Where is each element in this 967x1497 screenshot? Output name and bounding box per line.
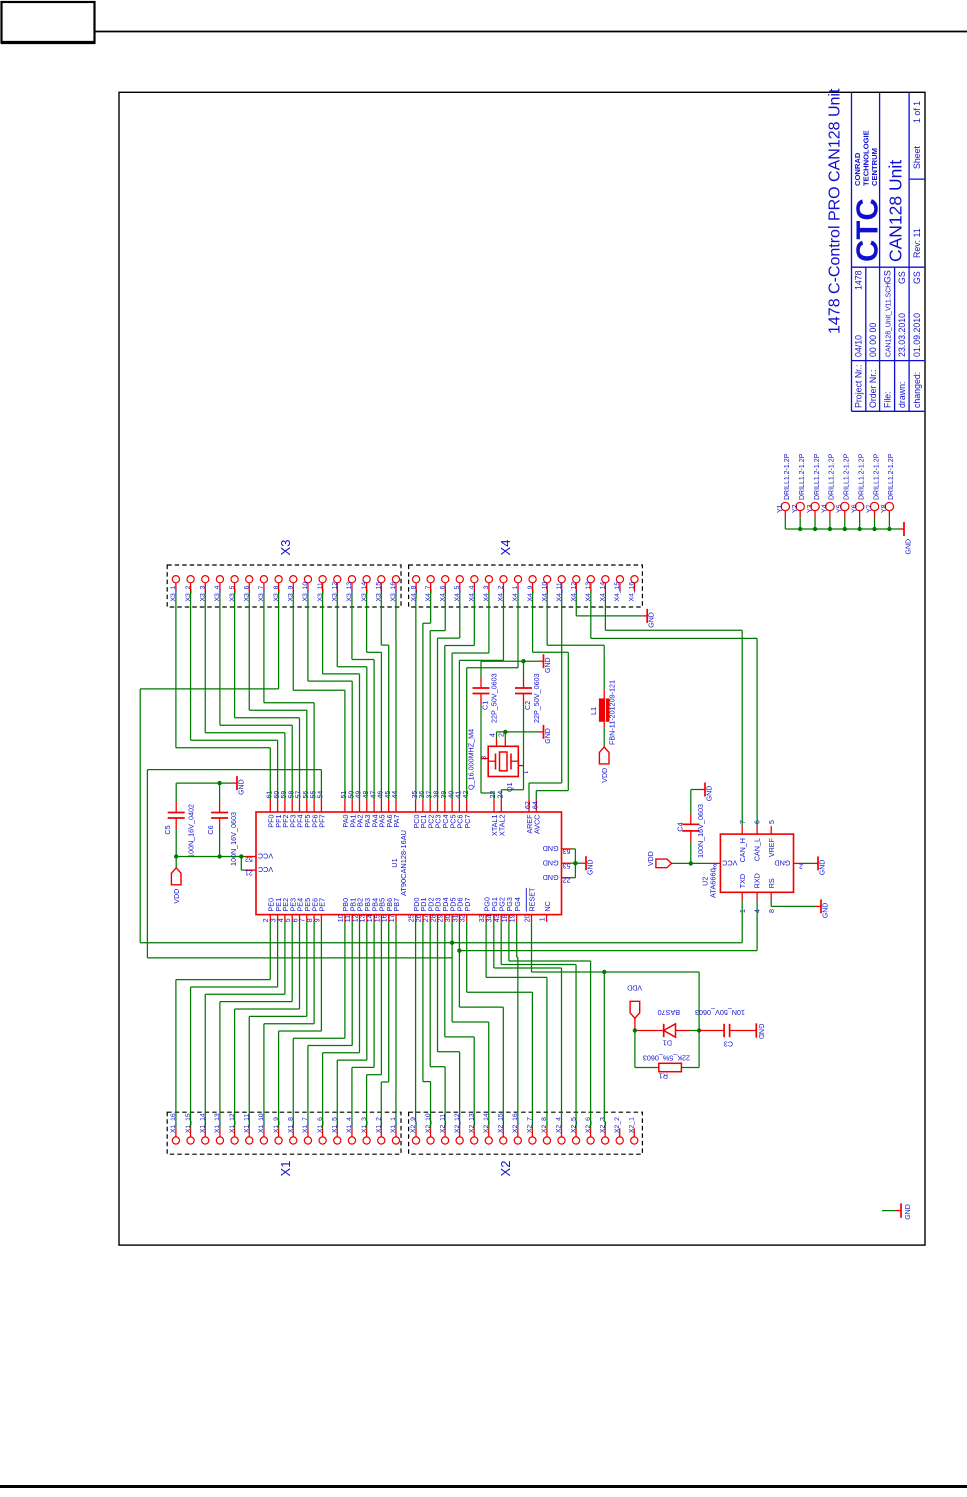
svg-text:DRILL1.2-1.2P: DRILL1.2-1.2P [844, 453, 851, 500]
capacitor C5 [163, 783, 196, 858]
wire U2 RS to ground [771, 900, 816, 906]
svg-text:63: 63 [563, 847, 571, 854]
ground X4_12 [642, 609, 655, 628]
svg-text:GND: GND [706, 786, 713, 802]
wire VDD to U2 VCC [672, 861, 711, 865]
title block texts [854, 270, 923, 408]
wire PD0 to X2_9 [415, 922, 417, 1122]
crystal Q1 [467, 729, 529, 792]
svg-text:changed:: changed: [912, 372, 922, 408]
svg-text:1478 C-Control PRO CAN128 Unit: 1478 C-Control PRO CAN128 Unit [827, 88, 844, 334]
svg-text:34: 34 [487, 914, 494, 922]
svg-text:16: 16 [382, 914, 389, 922]
svg-text:10N_50V_0603: 10N_50V_0603 [695, 1008, 745, 1017]
svg-text:C5: C5 [163, 825, 172, 834]
svg-text:DRILL1.2-1.2P: DRILL1.2-1.2P [814, 453, 821, 500]
svg-text:4: 4 [490, 733, 497, 737]
svg-text:R1: R1 [659, 1072, 668, 1081]
svg-text:GND: GND [649, 612, 656, 628]
svg-text:100N_16V_0402: 100N_16V_0402 [187, 804, 196, 858]
svg-text:RXD: RXD [753, 873, 762, 888]
sheet cell [912, 101, 922, 169]
svg-text:GND: GND [545, 657, 552, 673]
svg-text:8: 8 [307, 918, 314, 922]
svg-text:Project Nr.:: Project Nr.: [854, 364, 864, 408]
svg-text:GND: GND [238, 779, 245, 795]
svg-text:30: 30 [445, 914, 452, 922]
svg-text:ATA6660: ATA6660 [709, 868, 718, 898]
svg-text:11: 11 [345, 915, 352, 922]
svg-text:22P_50V_0603: 22P_50V_0603 [490, 673, 499, 723]
svg-text:53: 53 [563, 862, 571, 869]
wire X4 to PC staircase [423, 598, 518, 800]
wire XTAL2 net [501, 766, 523, 800]
svg-text:6: 6 [292, 918, 299, 922]
svg-text:VDD: VDD [648, 851, 655, 866]
wire X3_8 TXD net [140, 598, 742, 945]
wire X3 to PF staircase [176, 598, 314, 800]
ground U2 RS [816, 899, 829, 918]
svg-text:1: 1 [540, 917, 547, 921]
svg-text:U1: U1 [390, 858, 399, 867]
ground C4 [700, 783, 713, 802]
svg-text:PD7: PD7 [463, 898, 472, 912]
wire PB to X1 staircase [293, 922, 396, 1122]
capacitor C3 [695, 1008, 764, 1049]
svg-text:3: 3 [481, 756, 488, 760]
svg-text:Y1: Y1 [777, 504, 784, 513]
resistor R1 22K [635, 1054, 699, 1081]
svg-text:CENTRUM: CENTRUM [870, 148, 879, 186]
svg-text:26: 26 [416, 914, 423, 922]
wire X4_12 to gnd [576, 598, 642, 616]
svg-text:Q_16.000MHZ_M4: Q_16.000MHZ_M4 [467, 729, 476, 790]
svg-text:29: 29 [438, 914, 445, 922]
svg-text:GND: GND [543, 844, 559, 853]
svg-text:PE7: PE7 [318, 898, 327, 912]
wire C5 C6 top rail [176, 781, 232, 785]
svg-text:CTC: CTC [850, 198, 885, 262]
capacitor C2 [515, 661, 541, 765]
svg-text:GND: GND [906, 539, 913, 555]
wire PD to X2 staircase [423, 922, 533, 1122]
svg-text:GND: GND [587, 859, 594, 875]
svg-text:X3: X3 [278, 540, 293, 556]
power VDD C5 [171, 868, 181, 904]
svg-text:7: 7 [740, 820, 747, 824]
svg-text:NC: NC [543, 901, 552, 911]
svg-text:X4: X4 [498, 540, 513, 556]
wire X3_9 to PA0 [293, 598, 345, 800]
svg-text:GND: GND [757, 1024, 764, 1040]
svg-text:31: 31 [452, 914, 459, 922]
svg-text:GND: GND [543, 858, 559, 867]
svg-text:22K_5%_0603: 22K_5%_0603 [643, 1054, 690, 1063]
svg-text:drawn:: drawn: [897, 382, 907, 408]
IC U1 AT90CAN128-16AU [245, 791, 572, 923]
svg-text:VDD: VDD [174, 889, 181, 904]
wire X4_9 to AVCC [533, 598, 569, 800]
title block table [852, 93, 926, 412]
svg-text:1: 1 [740, 909, 747, 913]
svg-text:C4: C4 [676, 822, 685, 831]
IC U2 ATA6660 [701, 820, 804, 913]
svg-text:C3: C3 [724, 1040, 733, 1049]
svg-text:C2: C2 [523, 701, 532, 710]
svg-text:L1: L1 [589, 707, 598, 715]
svg-text:File:: File: [882, 391, 892, 408]
svg-text:27: 27 [423, 914, 430, 922]
capacitor C1 [473, 661, 499, 758]
svg-text:Q1: Q1 [505, 782, 514, 792]
connector X1 [167, 1112, 401, 1176]
svg-text:Sheet: Sheet [912, 145, 922, 169]
svg-text:VCC: VCC [722, 858, 737, 867]
svg-text:5: 5 [769, 820, 776, 824]
wire C4 top to gnd [691, 789, 700, 791]
capacitor C4 [676, 790, 706, 864]
svg-text:GND: GND [545, 728, 552, 744]
svg-text:GS: GS [912, 271, 922, 284]
connector X2 [409, 1112, 643, 1176]
svg-text:TXD: TXD [738, 874, 747, 888]
svg-text:Y4: Y4 [822, 504, 829, 513]
wire X3 to PA staircase [308, 598, 389, 800]
svg-text:PF7: PF7 [318, 815, 327, 828]
svg-text:10: 10 [338, 914, 345, 922]
wire Y bus [785, 528, 899, 530]
svg-text:DRILL1.2-1.2P: DRILL1.2-1.2P [799, 453, 806, 500]
svg-text:6: 6 [755, 820, 762, 824]
svg-text:VCC: VCC [258, 865, 273, 874]
svg-text:RESET: RESET [528, 887, 537, 912]
svg-text:3: 3 [271, 918, 278, 922]
svg-text:3: 3 [713, 862, 717, 869]
wire PG staircase to X2 [486, 922, 590, 1122]
svg-text:100N_16V_0603: 100N_16V_0603 [229, 812, 238, 866]
svg-text:RS: RS [767, 878, 776, 888]
svg-text:Y7: Y7 [866, 504, 873, 513]
svg-text:VDD: VDD [627, 984, 642, 991]
svg-text:X4_16: X4_16 [629, 582, 636, 602]
wire X4_11 to AREF [529, 598, 562, 800]
wire D1 R1 sides [633, 1028, 702, 1067]
svg-text:DRILL1.2-1.2P: DRILL1.2-1.2P [829, 453, 836, 500]
ground C5 C6 [232, 776, 245, 795]
svg-text:100N_16V_0603: 100N_16V_0603 [696, 804, 705, 858]
wire X4_10 to L1 [547, 598, 604, 689]
power VDD L1 [599, 747, 609, 783]
svg-text:C1: C1 [481, 701, 490, 710]
svg-text:AT90CAN128-16AU: AT90CAN128-16AU [399, 830, 408, 896]
wire RXD net [457, 900, 757, 953]
svg-text:GND: GND [543, 873, 559, 882]
svg-text:GS: GS [897, 271, 907, 284]
svg-text:7: 7 [300, 918, 307, 922]
CAN128 Unit cell text [886, 160, 906, 262]
connector X4 [409, 540, 643, 607]
svg-text:Y2: Y2 [792, 504, 799, 513]
svg-text:PB7: PB7 [392, 898, 401, 912]
svg-text:VREF: VREF [767, 837, 776, 857]
svg-text:CAN128_Unit_V11.SCH: CAN128_Unit_V11.SCH [885, 283, 892, 357]
svg-text:Y6: Y6 [851, 504, 858, 513]
svg-text:Y5: Y5 [837, 504, 844, 513]
svg-text:X2_1: X2_1 [628, 1117, 635, 1133]
svg-text:32: 32 [460, 914, 467, 922]
title text 1478 C-Control PRO CAN128 Unit [827, 88, 844, 334]
svg-text:22P_50V_0603: 22P_50V_0603 [532, 673, 541, 723]
svg-text:17: 17 [389, 914, 396, 922]
svg-text:DRILL1.2-1.2P: DRILL1.2-1.2P [784, 453, 791, 500]
wire X3_16 to PA7 [395, 598, 397, 800]
svg-text:VCC: VCC [258, 851, 273, 860]
ground bottom right [882, 1203, 912, 1219]
wire crystal top pins to gnd [497, 730, 539, 739]
wire GND bracket U1 [572, 849, 582, 878]
svg-text:X2_2: X2_2 [614, 1117, 621, 1133]
svg-text:C6: C6 [206, 825, 215, 834]
schematic frame [119, 92, 925, 1245]
svg-text:Rev: 11: Rev: 11 [912, 228, 922, 258]
svg-text:Y8: Y8 [881, 504, 888, 513]
svg-text:19: 19 [510, 914, 517, 922]
ground crystal top [539, 654, 552, 673]
CTC logo [850, 130, 885, 262]
svg-text:GND: GND [822, 903, 829, 919]
diode D1 BAS70 [635, 1008, 699, 1048]
drill holes Y1-Y8 [777, 453, 895, 531]
svg-text:GND: GND [774, 858, 790, 867]
svg-text:2: 2 [799, 862, 803, 869]
svg-text:62: 62 [525, 801, 532, 809]
svg-text:CAN_H: CAN_H [738, 838, 747, 862]
svg-text:X1: X1 [278, 1161, 293, 1177]
logo box top-left [1, 2, 96, 43]
svg-text:33: 33 [479, 914, 486, 922]
svg-text:64: 64 [533, 801, 540, 809]
svg-text:CAN_L: CAN_L [753, 838, 762, 861]
svg-text:13: 13 [360, 914, 367, 922]
svg-text:01.09.2010: 01.09.2010 [912, 313, 922, 357]
wire PG4 to X2_16 [517, 922, 518, 1122]
svg-text:XTAL2: XTAL2 [498, 815, 507, 836]
wire PE to X1 staircase [176, 922, 322, 1122]
svg-text:DRILL1.2-1.2P: DRILL1.2-1.2P [888, 453, 895, 500]
svg-text:GND: GND [819, 860, 826, 876]
svg-text:X2: X2 [498, 1161, 513, 1177]
svg-text:FBN-11-201209-121: FBN-11-201209-121 [608, 680, 617, 745]
svg-text:CAN128 Unit: CAN128 Unit [886, 160, 906, 262]
svg-text:25: 25 [409, 914, 416, 922]
svg-text:DRILL1.2-1.2P: DRILL1.2-1.2P [858, 453, 865, 500]
svg-text:PC7: PC7 [463, 814, 472, 828]
wire VCC rail [174, 854, 246, 870]
svg-text:GS: GS [882, 270, 892, 283]
svg-text:9: 9 [314, 918, 321, 922]
svg-text:1 of 1: 1 of 1 [912, 101, 922, 123]
svg-text:8: 8 [769, 909, 776, 913]
svg-text:VDD: VDD [602, 768, 609, 783]
svg-text:20: 20 [524, 914, 531, 922]
capacitor C6 [206, 783, 238, 866]
wire C1 C2 gnd rail [481, 659, 539, 663]
svg-text:DRILL1.2-1.2P: DRILL1.2-1.2P [873, 453, 880, 500]
svg-text:PG4: PG4 [513, 897, 522, 911]
inductor L1 FBN-11-201209-121 [589, 680, 617, 747]
svg-text:1478: 1478 [854, 270, 864, 290]
ground U2 pin2 [804, 856, 827, 875]
bottom rule [0, 1485, 967, 1488]
wire X4_14 CAN_H [605, 598, 742, 826]
svg-text:PA7: PA7 [392, 815, 401, 828]
svg-text:BAS70: BAS70 [658, 1008, 680, 1017]
svg-text:Y3: Y3 [807, 504, 814, 513]
ground Y row [899, 522, 913, 555]
svg-text:D1: D1 [663, 1039, 672, 1048]
wire XTAL1 net [481, 759, 494, 801]
ground crystal pins [539, 725, 552, 744]
svg-text:AVCC: AVCC [533, 815, 542, 834]
svg-text:18: 18 [502, 914, 509, 922]
svg-text:12: 12 [352, 914, 359, 922]
svg-text:23.03.2010: 23.03.2010 [897, 313, 907, 357]
wire X4_8 to PC0 [415, 598, 417, 800]
svg-text:4: 4 [278, 918, 285, 922]
svg-text:22: 22 [563, 876, 571, 883]
svg-text:28: 28 [430, 914, 437, 922]
svg-text:5: 5 [285, 918, 292, 922]
svg-text:2: 2 [263, 918, 270, 922]
svg-text:X4_15: X4_15 [614, 582, 621, 602]
wire X4_13 CAN_L [591, 598, 757, 826]
power VDD U2 [648, 851, 672, 867]
rev cell [912, 228, 922, 258]
svg-text:4: 4 [755, 909, 762, 913]
ground U1 GND pins [581, 856, 594, 875]
svg-text:43: 43 [494, 914, 501, 922]
top rule [96, 31, 967, 33]
svg-text:04/10: 04/10 [854, 335, 864, 357]
svg-text:00 00 00: 00 00 00 [868, 323, 878, 357]
power VDD D1 [627, 984, 642, 1031]
svg-text:14: 14 [367, 914, 374, 922]
wire PF7 net [147, 770, 452, 958]
svg-text:Order Nr.:: Order Nr.: [868, 369, 878, 408]
svg-text:X2_3: X2_3 [599, 1117, 606, 1133]
svg-text:15: 15 [374, 914, 381, 922]
connector X3 [167, 540, 401, 607]
wire RESET net [532, 922, 700, 1122]
svg-text:GND: GND [905, 1204, 912, 1220]
svg-text:1: 1 [521, 771, 528, 775]
